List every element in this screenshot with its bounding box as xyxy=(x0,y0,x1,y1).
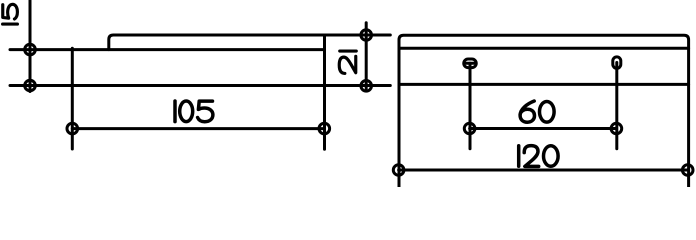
dim 120 marker right xyxy=(682,165,693,176)
shelf body right edge / 105 extension line xyxy=(323,35,326,149)
dim 105 dimension line xyxy=(72,127,324,130)
dim 21 marker bottom xyxy=(361,81,372,92)
left slot extension line / 60 extension xyxy=(469,63,472,148)
dim 21 dimension line xyxy=(365,23,368,91)
left mounting slot xyxy=(464,59,477,68)
dim 120 text xyxy=(519,146,558,167)
dim 60 dimension line xyxy=(470,127,617,130)
shelf body top edge / 15 extension line xyxy=(10,48,325,51)
dim 21 extension bottom line xyxy=(325,84,391,87)
dim 120 marker left xyxy=(393,165,404,176)
dim 105 text xyxy=(175,101,213,122)
shelf body bottom edge / 15 extension line xyxy=(10,84,325,87)
shelf lip (side view) xyxy=(109,35,325,50)
dim 15 text (rotated) xyxy=(3,4,18,24)
dim 105 marker left xyxy=(67,123,78,134)
front plate outline with 120 extension edges xyxy=(399,35,689,186)
dim 15 marker top xyxy=(25,44,36,55)
dim 21 marker top xyxy=(361,30,372,41)
front plate lip line xyxy=(399,47,689,50)
dim 105 marker right xyxy=(319,123,330,134)
dim 21 text (rotated) xyxy=(339,51,356,73)
dim 120 dimension line xyxy=(399,169,688,172)
left slot inner mark xyxy=(466,62,475,65)
dim 21 extension top line xyxy=(325,34,391,37)
front plate bottom edge xyxy=(399,83,689,86)
shelf body left edge / 105 extension line xyxy=(71,48,74,149)
dim 15 marker bottom xyxy=(25,80,36,91)
right slot inner mark and extension line / 60 extension xyxy=(615,63,618,149)
dim 60 text xyxy=(520,101,554,122)
right mounting slot xyxy=(613,57,621,68)
dim 15 dimension line xyxy=(29,1,32,92)
dim 60 marker right xyxy=(611,123,622,134)
dim 60 marker left xyxy=(464,123,475,134)
